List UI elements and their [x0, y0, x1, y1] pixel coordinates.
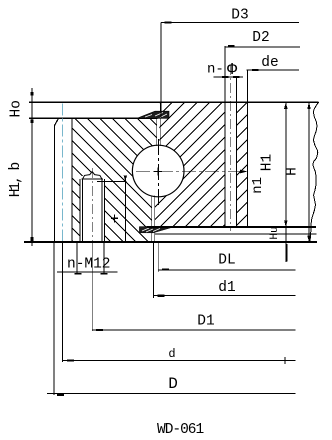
inner ring bore edge [54, 125, 56, 242]
svg-text:d: d [168, 347, 175, 361]
svg-text:Hu: Hu [269, 226, 281, 239]
bore void in outer ring [225, 102, 236, 227]
bore centerline [230, 65, 232, 231]
M12 thread line left [79, 179, 81, 242]
M12 hole wall left [82, 179, 84, 242]
inner ring bottom line [24, 241, 317, 243]
dimension Ho [9, 88, 34, 246]
thread depth dimension line [124, 177, 126, 241]
svg-text:H1: H1 [260, 154, 276, 171]
joint gap upper right line [159, 102, 161, 146]
n1 arrow [240, 170, 248, 174]
D1 extension (bolt centerline) [91, 247, 93, 331]
svg-text:de: de [261, 55, 278, 71]
inner ring top surface line [29, 117, 158, 119]
dimension H1 [260, 102, 288, 262]
d extension [62, 242, 64, 362]
ball horizontal centerline [136, 170, 240, 172]
dimension D1 [92, 314, 295, 332]
bore left edge / D2 extension [224, 46, 226, 227]
thread depth arrow [124, 176, 127, 182]
bore centerline (cyan) [62, 104, 64, 243]
ball vertical centerline [157, 139, 159, 206]
M12 thread line right [103, 179, 105, 242]
gear bottom relief line [155, 233, 317, 235]
svg-text:Ho: Ho [9, 100, 25, 117]
dimension D [47, 375, 295, 396]
dimension d [63, 347, 296, 364]
D extension [53, 242, 55, 395]
inner ring bore edge chamfer [55, 118, 59, 125]
outer ring bottom line [147, 226, 317, 228]
plus mark [111, 215, 118, 223]
dimension D3 [161, 8, 299, 119]
dimension H1,b label [8, 162, 34, 240]
hatch boundary left of bolt hole [71, 118, 73, 242]
joint gap upper left line [156, 112, 158, 146]
dimension d1 [154, 280, 296, 297]
thread depth extension line [97, 180, 127, 182]
dimension n-phi [207, 61, 243, 80]
top surface line of outer ring [29, 101, 319, 103]
svg-text:D1: D1 [197, 314, 214, 330]
bottom seal [139, 227, 172, 233]
svg-text:H1, b: H1, b [8, 162, 24, 197]
svg-text:D3: D3 [231, 8, 248, 24]
bore right edge [235, 77, 237, 227]
svg-text:H: H [285, 167, 301, 176]
wavy break line [310, 102, 319, 243]
svg-text:D2: D2 [252, 30, 269, 46]
d1 extension [153, 242, 155, 298]
svg-text:WD-061: WD-061 [157, 422, 204, 438]
ball center cross [154, 167, 162, 175]
dimension H [285, 102, 311, 243]
svg-text:DL: DL [218, 253, 235, 269]
bolt hole void in inner ring [80, 176, 104, 242]
ball [132, 145, 184, 197]
drill cone top of bolt hole [83, 172, 102, 179]
extension stub right [286, 244, 288, 261]
svg-text:D: D [168, 375, 178, 393]
svg-text:Φ: Φ [227, 61, 238, 80]
dimension DL [158, 253, 295, 271]
dimension n-M12 [57, 242, 118, 275]
joint gap lower right line [154, 196, 156, 243]
svg-text:n1: n1 [250, 177, 266, 194]
svg-text:d1: d1 [218, 280, 235, 296]
dimension D2 [225, 30, 300, 47]
joint gap lower left line [151, 196, 153, 243]
dimension de [246, 55, 299, 71]
svg-text:n-M12: n-M12 [67, 257, 111, 273]
top seal [137, 111, 169, 118]
outer ring right edge / de extension [247, 70, 249, 227]
bolt centerline [91, 168, 93, 247]
DL extension [157, 242, 159, 272]
M12 hole wall right [101, 179, 103, 242]
bolt hole base line [82, 178, 104, 180]
svg-text:n-: n- [207, 62, 224, 78]
